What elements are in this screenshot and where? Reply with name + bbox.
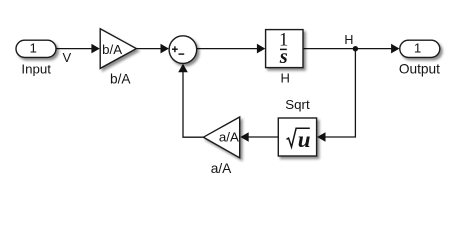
svg-text:Input: Input — [21, 61, 51, 76]
svg-text:H: H — [281, 71, 290, 86]
svg-text:s: s — [279, 46, 288, 68]
svg-text:Output: Output — [399, 62, 440, 77]
svg-text:a/A: a/A — [219, 130, 239, 145]
svg-text:b/A: b/A — [110, 72, 131, 87]
svg-text:b/A: b/A — [102, 42, 122, 57]
svg-text:a/A: a/A — [211, 161, 232, 176]
svg-text:Sqrt: Sqrt — [285, 97, 310, 112]
svg-text:u: u — [298, 127, 311, 152]
svg-text:V: V — [62, 50, 71, 65]
svg-text:1: 1 — [29, 40, 36, 55]
svg-text:1: 1 — [414, 40, 421, 55]
svg-text:H: H — [344, 33, 353, 47]
